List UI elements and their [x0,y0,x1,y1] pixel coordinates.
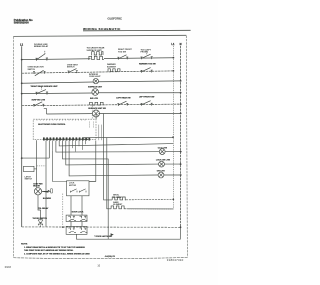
junction dot left tap [21,157,23,159]
lamp 2 circle [159,161,165,167]
EOC right pin ticks [89,122,93,129]
bottom neutral bus wire [22,226,181,228]
fan tap terminal [51,189,53,193]
heating element E1b lower [88,56,104,59]
relay K1 label [34,44,49,48]
junction dot row6 right [180,113,182,115]
svg-text:SWITCH: SWITCH [25,179,33,181]
harness long left vertical wire [45,141,47,227]
svg-text:2. COMPOSITE WAY JH OF THE S: 2. COMPOSITE WAY JH OF THE SERIES IN ALL… [24,252,90,255]
svg-text:WARMER TOD SW: WARMER TOD SW [139,62,156,65]
row 2 oven selector wire [22,71,174,73]
riser row5 to EOC wire [91,106,93,120]
broil element label [113,195,123,199]
harness wire D to lamp 2 [66,141,159,165]
row 6 riser wire [44,109,47,114]
svg-text:BLOWER: BLOWER [43,198,52,200]
row 4 surface unit wire [22,92,181,95]
harness wire A [83,137,173,139]
switch S5 [68,69,78,74]
lock chain dashed wire [62,194,64,227]
right L1 rail wire [127,46,173,209]
lock switch box B3 contacts [68,216,87,220]
element TOD right rear label [87,46,105,52]
heating element bake [111,206,126,209]
switch S5 label [67,64,79,68]
frame right border [186,36,187,258]
motor M2 circle [93,110,100,117]
harness wire C to lamp CLO [56,141,159,153]
junction dots row4 [21,92,182,95]
svg-text:LEFT REAR SW: LEFT REAR SW [116,96,130,99]
svg-text:TDL RELAY: TDL RELAY [38,207,49,210]
junction dot harness A [172,136,174,138]
svg-text:THIS PRINT DOES NOT ABRIDGE AN: THIS PRINT DOES NOT ABRIDGE ANY WIRING D… [24,249,74,252]
lamp L1 circle [93,78,98,83]
junction dot lamp2 N [180,163,182,165]
svg-text:LEFT FRONT SW: LEFT FRONT SW [139,97,155,99]
svg-text:1. WRAP DRAIN WITH A 4 BUNDLE: 1. WRAP DRAIN WITH A 4 BUNDLES TIE TO UP… [24,246,86,249]
svg-text:L1: L1 [171,42,175,46]
switch S2 row1 [117,55,128,60]
svg-text:CLO LITE: CLO LITE [158,147,168,149]
svg-text:MOTOR: MOTOR [69,185,77,187]
svg-text:GLEF378C: GLEF378C [108,17,122,21]
broil to L1 wire [126,198,173,200]
svg-text:SURF IND LITE: SURF IND LITE [32,100,46,102]
heating element E1 [91,52,103,55]
left L1 rail wire [21,46,23,227]
broil element riser wire [104,114,113,200]
svg-text:FRONT): FRONT) [141,52,149,54]
svg-text:5995382000: 5995382000 [14,21,29,25]
B2 to B3 wires [71,196,82,215]
switch S2 label [118,49,132,53]
junction dot bus right [180,226,182,228]
harness wire B [59,141,173,146]
switch S8 [33,102,44,107]
element E2 label [107,63,117,68]
switch S9 [117,101,128,106]
frame top border [14,35,187,36]
relay box B2 [67,181,90,196]
svg-text:SWITCH: SWITCH [67,67,75,69]
junction dot bus left of boxes [62,226,64,228]
relay box B2 label [69,183,77,187]
lamp 2 to N wire [164,163,180,165]
EOC connector pin row [43,137,90,140]
header publication number [14,18,33,25]
svg-text:OVEN LIGHT: OVEN LIGHT [89,76,101,78]
motor fan circle [34,188,41,195]
door lock feed wire [36,140,38,187]
svg-text:SURFACE UNIT SW: SURFACE UNIT SW [88,107,106,110]
row 1 bake circuit wire [22,58,174,60]
svg-text:ELECTRONIC OVEN CONTROL: ELECTRONIC OVEN CONTROL [38,124,66,126]
pointer arrow [111,233,114,236]
switch S6 [141,68,153,73]
harness wire E to lamp 3 [69,141,158,176]
lock box B1 [24,166,35,171]
door switch plug [38,220,42,227]
heating element broil [112,197,126,200]
motor M1 circle [92,89,99,96]
N rail wire [180,46,182,228]
B4 drop wire [77,234,109,239]
svg-text:03/03: 03/03 [5,266,12,269]
svg-text:DOOR LOCK: DOOR LOCK [72,211,84,213]
row 3 oven light wire [22,81,181,83]
riser row6 to EOC wire [95,114,97,119]
junction dot row5 right [180,103,182,105]
lock switch box B3 [66,215,87,221]
junction dot broil L1 [172,199,174,201]
switch S3 label [141,49,152,53]
lamp 3 to N wire [164,174,181,176]
EOC control box dashed outline [33,119,96,139]
lamp CLO to N wire [165,151,181,153]
lamp CLO circle [159,149,165,155]
svg-text:BREAK RELAY: BREAK RELAY [34,45,49,48]
junction dots row1 [21,57,175,61]
junction dots row3 [21,80,182,84]
EOC pin ticks top edge [37,119,85,121]
junction dot row2 right [173,70,175,72]
row 5 indicator wire [22,104,181,106]
junction dot CLO N [180,151,182,153]
B3 to B4 wires [71,222,82,227]
svg-text:NOTE:: NOTE: [21,243,28,245]
title underline rule [83,29,191,32]
heating element E2 [108,69,120,72]
lamp L1 oven light label [89,74,101,78]
harness wire F mid stair [63,141,181,240]
interlock box B4 contacts [68,228,87,232]
svg-text:*RIGHT REAR SURFACE UNIT: *RIGHT REAR SURFACE UNIT [31,85,59,88]
svg-text:N: N [180,42,182,46]
switch S4 [33,70,46,76]
svg-text:* DOOR LATCH SW.: * DOOR LATCH SW. [94,235,112,238]
motor fan label [33,183,43,188]
lock box B1 link wire [34,168,37,170]
svg-text:LOCK ON LITE: LOCK ON LITE [156,159,171,161]
harness wire to B2 box [53,151,67,182]
svg-text:L1: L1 [20,42,24,46]
frame left border [13,36,15,257]
switch S7 [35,87,48,95]
row 6 wire [47,112,181,115]
B2 feed wire [89,141,96,182]
harness stub wires [53,141,86,152]
svg-text:IND LITE: IND LITE [90,98,99,100]
svg-text:ELEMENT: ELEMENT [107,66,117,68]
switch S10 [141,101,153,106]
svg-text:10: 10 [97,265,100,268]
bake to L1 wire [127,208,173,210]
EOC pin row base wire [43,138,88,140]
left rail tap wire [22,141,50,159]
svg-text:SURFACE UNIT: SURFACE UNIT [88,86,103,89]
svg-text:SWITCH: SWITCH [28,69,36,71]
switch S4 label [28,67,45,71]
bake element riser wire [107,138,111,209]
motor fan tap wire [42,190,50,192]
door lock dashed link [37,165,46,167]
heating element E3 [90,102,103,105]
interlock box B4 [66,226,87,234]
relay box B2 contacts [71,189,87,193]
lamp 3 circle [158,172,164,178]
frame bottom border [14,257,188,258]
relay K1 contacts [35,51,48,61]
junction dot lamp3 N [180,174,182,176]
svg-text:TOD SW: TOD SW [118,51,126,53]
svg-text:J-6(23)-76: J-6(23)-76 [105,256,116,258]
svg-text:MOTOR: MOTOR [33,185,40,187]
door switch drop wire [38,195,41,219]
lock box B1 label [25,175,33,180]
svg-text:318047310: 318047310 [167,258,184,262]
board drop wires right [99,125,102,141]
bake element label [113,201,123,206]
switch S3 row1 [141,52,153,60]
